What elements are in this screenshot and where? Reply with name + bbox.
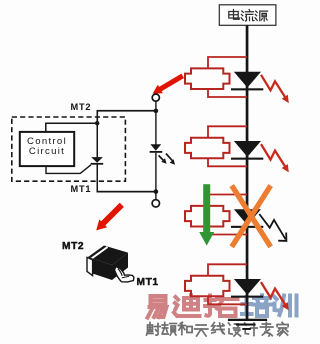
- wire R4 bottom link: [208, 296, 247, 304]
- light emission arrow from D4: [261, 282, 289, 310]
- terminal circle top: [152, 94, 159, 101]
- opto LED emission arrow a: [159, 155, 167, 163]
- wire gate: [46, 165, 91, 174]
- orange X (LED failed open): [233, 188, 269, 245]
- resistor R3: [185, 206, 230, 227]
- wire R3 bottom link: [208, 227, 247, 235]
- red arrow to package: [96, 203, 124, 231]
- triac module dashed box: [12, 117, 126, 181]
- watermark text line2 rf-antenna-expert: [147, 322, 289, 336]
- wire opto LED anode: [155, 111, 156, 145]
- wire R2 top link: [208, 126, 247, 137]
- node MT2 junction: [154, 109, 159, 114]
- node MT1 junction: [154, 189, 159, 194]
- opto LED D5: [150, 144, 163, 153]
- label MT2 (package): [62, 241, 84, 252]
- opto LED emission arrow b: [166, 154, 175, 165]
- wire MT1 horizontal: [97, 191, 157, 193]
- wire R1 top link: [208, 57, 247, 68]
- terminal circle bottom: [152, 200, 159, 207]
- wire R3 top link: [208, 195, 247, 206]
- wire MT2 horizontal: [97, 110, 157, 112]
- watermark text line1 yidituo-peixun: [148, 295, 297, 317]
- resistor R1: [185, 68, 230, 89]
- wire triac cathode: [97, 165, 99, 193]
- wire terminal bottom link: [155, 192, 156, 200]
- control circuit block: [20, 132, 74, 166]
- resistor R2: [185, 138, 230, 159]
- wire R2 bottom link: [208, 158, 247, 166]
- node triac anode: [95, 121, 99, 125]
- LED D1: [231, 72, 263, 91]
- LED D2: [231, 141, 263, 160]
- ground: [228, 319, 267, 330]
- light emission arrow from D1: [261, 75, 289, 103]
- SMD triac package body: [87, 246, 128, 281]
- wire MT2 drop: [97, 110, 99, 123]
- wire R1 bottom link: [208, 89, 247, 97]
- LED D3: [231, 209, 263, 228]
- light emission arrow from D2: [261, 144, 289, 172]
- thyristor Q1: [91, 157, 104, 165]
- wire opto LED cathode: [155, 153, 156, 192]
- wire terminal to node: [155, 101, 156, 110]
- red arrow to terminal: [153, 74, 184, 94]
- label MT1 (schematic): [71, 184, 92, 194]
- wire node to triac: [97, 123, 99, 157]
- label MT2 (schematic): [71, 102, 92, 112]
- current source box (dianliuyuan): [219, 5, 276, 26]
- wire R4 top link: [208, 264, 247, 275]
- label control circuit text: [20, 137, 74, 156]
- wire main vertical bus: [246, 25, 249, 319]
- label MT1 (package): [137, 277, 159, 288]
- blocked emission arrow from D3 (no light): [259, 214, 286, 241]
- resistor R4: [185, 276, 230, 297]
- SMD package lead MT1: [115, 266, 134, 282]
- LED D4: [231, 279, 263, 298]
- green current-flow arrow: [199, 184, 214, 245]
- wire control to gate-node: [46, 123, 97, 132]
